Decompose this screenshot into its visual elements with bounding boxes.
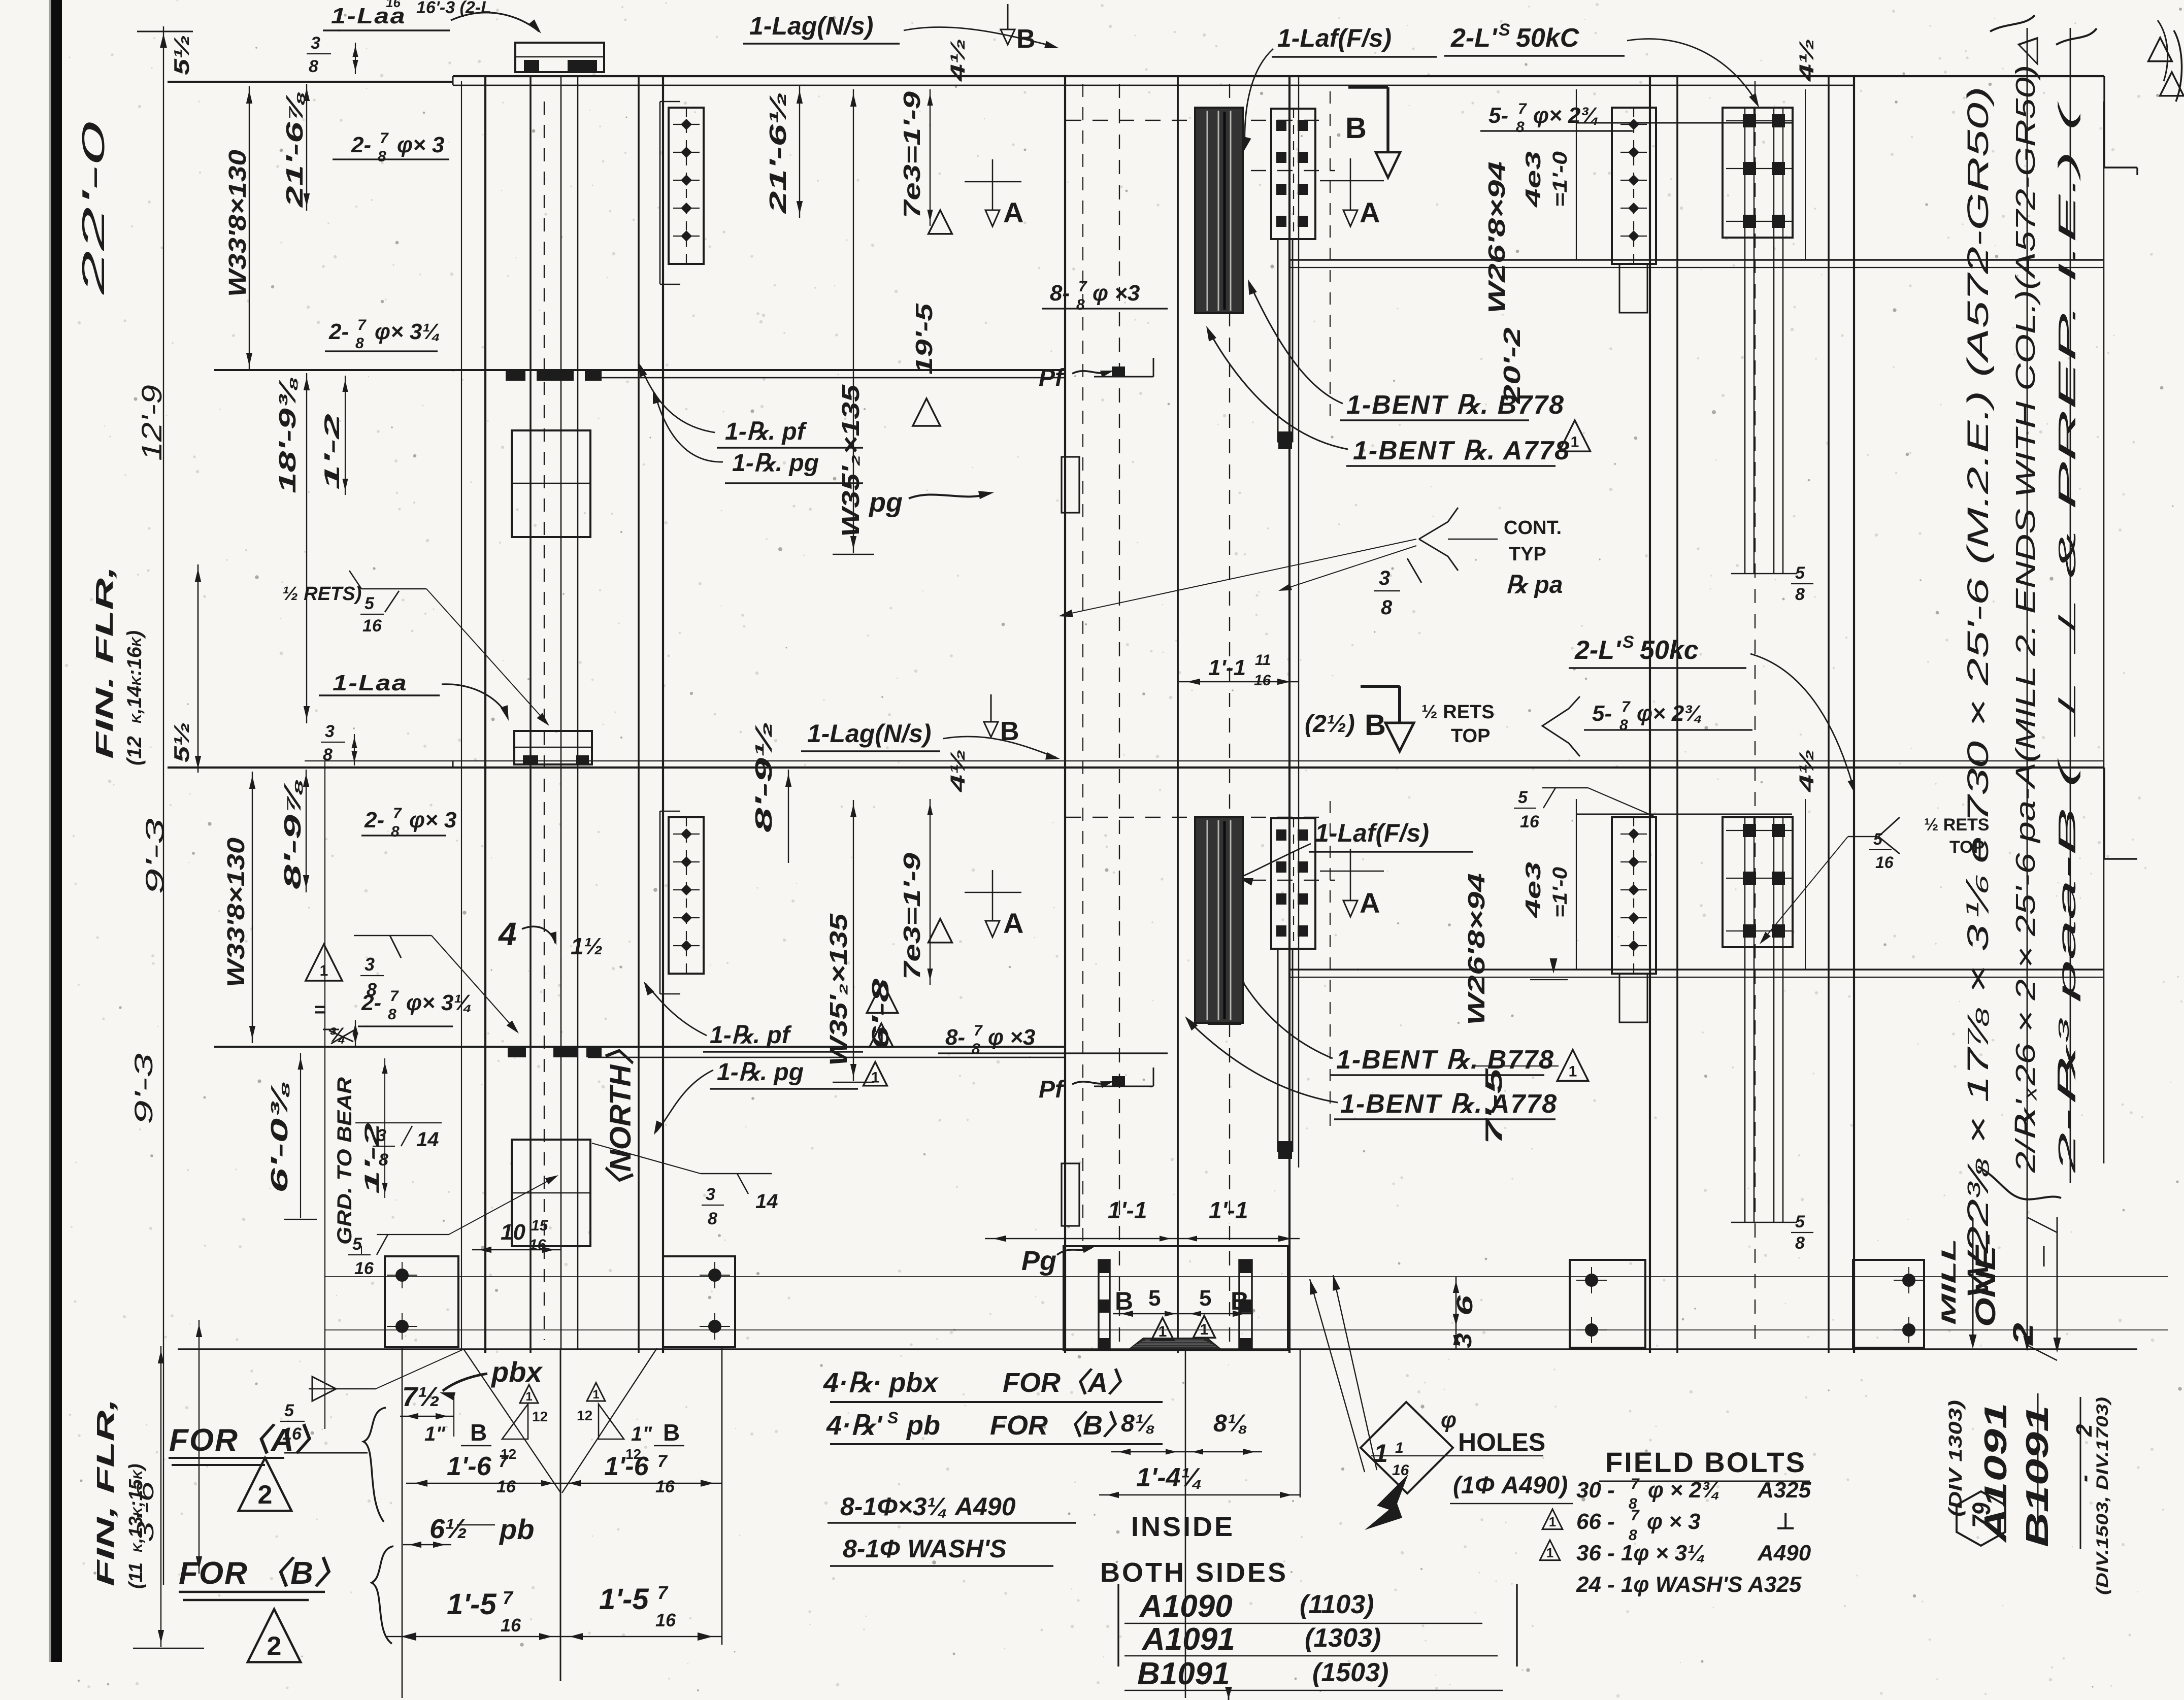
svg-text:BOTH SIDES: BOTH SIDES (1100, 1557, 1288, 1588)
svg-text:7: 7 (503, 1587, 514, 1608)
svg-text:1-℞. pf: 1-℞. pf (710, 1022, 792, 1049)
svg-text:4·℞· pbx: 4·℞· pbx (823, 1368, 939, 1398)
svg-text:pg: pg (868, 487, 903, 518)
svg-text:ONE-: ONE- (1969, 1233, 2001, 1327)
svg-text:TOP: TOP (1451, 725, 1490, 747)
svg-text:7: 7 (1518, 101, 1527, 117)
svg-text:S: S (887, 1409, 899, 1427)
svg-text:A490: A490 (1757, 1541, 1811, 1565)
svg-text:7: 7 (393, 805, 402, 822)
svg-text:φ × 3: φ × 3 (1647, 1509, 1701, 1534)
svg-text:16: 16 (1254, 672, 1271, 689)
svg-text:TYP: TYP (1509, 544, 1546, 565)
svg-text:15: 15 (531, 1217, 549, 1234)
svg-text:16: 16 (354, 1259, 374, 1278)
svg-text:(11: (11 (125, 1562, 147, 1589)
svg-text:(1Φ A490): (1Φ A490) (1453, 1472, 1568, 1499)
svg-text:5½: 5½ (170, 722, 193, 762)
svg-text:3: 3 (1379, 567, 1390, 589)
svg-text:1: 1 (1571, 434, 1579, 451)
svg-text:1'-6: 1'-6 (604, 1452, 649, 1481)
svg-text:W33'8×130: W33'8×130 (224, 150, 251, 297)
svg-text:W26'8×94: W26'8×94 (1463, 873, 1490, 1025)
svg-text:8: 8 (1076, 296, 1085, 313)
svg-text:1-Laa: 1-Laa (331, 4, 406, 28)
svg-text:FIN, FLR,: FIN, FLR, (92, 1398, 119, 1586)
svg-text:19'-5: 19'-5 (911, 303, 937, 375)
svg-text:6½: 6½ (429, 1514, 468, 1544)
svg-text:=: = (314, 998, 325, 1021)
svg-text:8: 8 (323, 745, 333, 764)
svg-text:S: S (1499, 20, 1510, 40)
svg-text:1'-5: 1'-5 (447, 1588, 497, 1621)
svg-text:A: A (1360, 887, 1380, 919)
svg-text:1: 1 (1200, 1321, 1209, 1338)
svg-text:5-: 5- (1488, 103, 1508, 128)
svg-text:8⅛: 8⅛ (1121, 1410, 1155, 1437)
svg-text:4½: 4½ (1796, 38, 1818, 82)
svg-text:5: 5 (1795, 563, 1805, 583)
svg-text:2-: 2- (361, 990, 381, 1015)
svg-text:FOR 〈B〉: FOR 〈B〉 (990, 1410, 1130, 1441)
svg-text:1½: 1½ (571, 933, 603, 959)
right column C3 (1649, 76, 1651, 1353)
svg-text:3: 3 (325, 722, 335, 741)
svg-text:5: 5 (1199, 1286, 1211, 1311)
svg-text:B: B (663, 1419, 680, 1446)
svg-text:7: 7 (357, 317, 367, 334)
svg-text:7e3=1'-9: 7e3=1'-9 (899, 852, 925, 980)
svg-text:1-BENT ℞. A778: 1-BENT ℞. A778 (1353, 436, 1570, 465)
svg-text:79: 79 (1967, 1503, 1996, 1528)
svg-text:3: 3 (1451, 1333, 1476, 1348)
svg-text:2-: 2- (364, 808, 384, 832)
svg-text:(2½): (2½) (1305, 711, 1355, 738)
svg-text:(DIV.1503, DIV.1703): (DIV.1503, DIV.1703) (2093, 1397, 2111, 1595)
svg-text:Pg: Pg (1021, 1246, 1056, 1276)
svg-text:7: 7 (974, 1022, 983, 1039)
svg-text:4½: 4½ (1796, 749, 1818, 793)
svg-text:A: A (1003, 196, 1023, 228)
svg-text:50kc: 50kc (1640, 636, 1699, 665)
svg-text:FIN. FLR,: FIN. FLR, (91, 566, 118, 759)
svg-text:24 - 1φ WASH'S A325: 24 - 1φ WASH'S A325 (1576, 1572, 1802, 1597)
svg-text:8: 8 (972, 1041, 980, 1057)
svg-text:4½: 4½ (947, 749, 969, 793)
svg-text:12: 12 (577, 1408, 592, 1423)
svg-text:φ× 3¼: φ× 3¼ (375, 319, 441, 344)
svg-text:HOLES: HOLES (1458, 1428, 1545, 1456)
svg-text:4·℞': 4·℞' (826, 1410, 883, 1441)
svg-text:1-BENT ℞. A778: 1-BENT ℞. A778 (1340, 1089, 1558, 1119)
svg-text:FOR〈A〉: FOR〈A〉 (1003, 1368, 1135, 1398)
svg-text:1: 1 (525, 1390, 532, 1404)
svg-text:⊥: ⊥ (1776, 1509, 1795, 1534)
bent plate B778/A778 (E2) (1195, 817, 1243, 1023)
svg-text:8: 8 (391, 823, 400, 840)
svg-text:8⅛: 8⅛ (1213, 1410, 1247, 1437)
svg-text:1-Lag(N/s): 1-Lag(N/s) (807, 719, 931, 748)
svg-text:30 -: 30 - (1576, 1478, 1615, 1503)
svg-text:1-Laa: 1-Laa (333, 671, 408, 695)
svg-text:16'-3 (2-L: 16'-3 (2-L (416, 0, 491, 17)
svg-text:16: 16 (362, 616, 382, 636)
svg-text:1: 1 (592, 1388, 599, 1402)
svg-text:7: 7 (1631, 1507, 1640, 1524)
svg-text:(DIV 1303): (DIV 1303) (1945, 1400, 1966, 1517)
svg-text:φ× 3¼: φ× 3¼ (406, 990, 472, 1015)
bent plate B778/A778 (E1) (1195, 108, 1243, 313)
svg-text:2: 2 (2007, 1323, 2039, 1346)
svg-text:7: 7 (1622, 698, 1631, 715)
svg-text:8: 8 (708, 1209, 717, 1228)
svg-text:18'-9⅜: 18'-9⅜ (274, 377, 301, 493)
svg-text:16: 16 (1520, 812, 1540, 831)
svg-text:1: 1 (1159, 1323, 1167, 1340)
elevation-2 beam flange lines (305, 760, 2104, 761)
svg-text:7: 7 (380, 130, 389, 147)
left column C1 (484, 76, 486, 1353)
svg-text:7: 7 (1078, 278, 1087, 295)
svg-text:3: 3 (377, 1126, 386, 1145)
svg-text:A: A (1360, 196, 1380, 228)
svg-text:1'-2: 1'-2 (320, 414, 344, 490)
right margin rotated title block (2027, 28, 2028, 1348)
svg-text:16: 16 (655, 1477, 675, 1496)
svg-text:A: A (1003, 907, 1023, 939)
svg-text:8-1Φ×3¼ A490: 8-1Φ×3¼ A490 (840, 1492, 1016, 1521)
svg-text:〈NORTH〉: 〈NORTH〉 (604, 1035, 637, 1202)
svg-text:A325: A325 (1757, 1478, 1811, 1503)
svg-text:7: 7 (390, 988, 399, 1005)
svg-text:5: 5 (284, 1401, 294, 1420)
svg-text:8-1Φ WASH'S: 8-1Φ WASH'S (843, 1535, 1007, 1563)
svg-text:1-℞. pf: 1-℞. pf (725, 418, 807, 445)
svg-text:W35'₂×135: W35'₂×135 (838, 384, 865, 537)
svg-text:8: 8 (1516, 119, 1525, 136)
svg-text:8: 8 (378, 148, 386, 165)
svg-text:B: B (1115, 1287, 1133, 1315)
svg-text:φ× 2¾: φ× 2¾ (1637, 701, 1703, 726)
svg-text:B: B (470, 1419, 487, 1446)
svg-text:7: 7 (499, 1452, 509, 1471)
svg-text:5: 5 (1148, 1286, 1161, 1311)
svg-text:φ× 2¾: φ× 2¾ (1533, 103, 1599, 128)
svg-text:3'-6: 3'-6 (132, 1481, 158, 1542)
svg-text:8: 8 (355, 335, 364, 352)
svg-text:1: 1 (871, 1069, 880, 1086)
svg-text:2-: 2- (328, 319, 349, 344)
svg-text:φ ×3: φ ×3 (1093, 281, 1140, 306)
svg-text:pb: pb (499, 1513, 534, 1545)
svg-text:8: 8 (1619, 717, 1628, 734)
svg-text:½ RETS: ½ RETS (1924, 815, 1989, 835)
svg-text:4e3: 4e3 (1521, 862, 1545, 919)
svg-text:4e3: 4e3 (1521, 151, 1545, 208)
svg-text:℞ pa: ℞ pa (1506, 572, 1563, 598)
svg-text:36 - 1φ × 3¼: 36 - 1φ × 3¼ (1576, 1541, 1706, 1565)
svg-text:1: 1 (1395, 1440, 1404, 1456)
svg-text:1-℞. pg: 1-℞. pg (732, 450, 819, 477)
svg-text:3: 3 (365, 954, 375, 975)
svg-text:5-: 5- (1592, 701, 1612, 726)
svg-text:CONT.: CONT. (1504, 517, 1562, 539)
svg-text:6: 6 (1452, 1295, 1477, 1316)
svg-text:1-Laf(F/s): 1-Laf(F/s) (1277, 24, 1392, 52)
svg-text:9'-3: 9'-3 (141, 818, 169, 894)
svg-text:7'-5: 7'-5 (1480, 1067, 1507, 1145)
svg-text:1'-1: 1'-1 (1108, 1197, 1147, 1223)
svg-text:4½: 4½ (947, 38, 969, 82)
svg-text:φ× 3: φ× 3 (397, 132, 444, 157)
svg-text:W33'8×130: W33'8×130 (223, 838, 250, 987)
pbx gusset and leaders (464, 1350, 560, 1492)
svg-text:MILL: MILL (1938, 1239, 1960, 1325)
left margin dimension lines (163, 26, 164, 1585)
svg-text:2/℞'ₓ26 × 2 × 25'-6 pa-A(MILL: 2/℞'ₓ26 × 2 × 25'-6 pa-A(MILL 2. ENDS WI… (2010, 36, 2041, 1173)
svg-text:5: 5 (1795, 1212, 1805, 1231)
svg-text:16: 16 (655, 1610, 676, 1630)
svg-text:S: S (1623, 632, 1634, 652)
svg-text:TOP: TOP (1949, 838, 1984, 857)
svg-text:FIELD BOLTS: FIELD BOLTS (1605, 1446, 1806, 1478)
svg-text:W26'8×94: W26'8×94 (1483, 161, 1510, 314)
svg-text:6'-8: 6'-8 (867, 978, 894, 1050)
svg-text:8: 8 (1381, 596, 1393, 619)
svg-text:1'-6: 1'-6 (447, 1452, 492, 1481)
svg-text:11: 11 (1255, 652, 1271, 669)
middle column C2 (1064, 76, 1066, 1353)
svg-text:INSIDE: INSIDE (1131, 1512, 1235, 1542)
svg-text:50kC: 50kC (1516, 23, 1580, 53)
svg-text:3: 3 (706, 1185, 715, 1204)
svg-text:W35'₂×135: W35'₂×135 (825, 913, 852, 1066)
svg-text:pbx: pbx (490, 1356, 543, 1388)
svg-text:½ RETS): ½ RETS) (282, 583, 361, 605)
svg-text:2-L': 2-L' (1574, 636, 1622, 665)
svg-text:12'-9: 12'-9 (136, 385, 168, 461)
svg-text:=1'-0: =1'-0 (1549, 151, 1571, 207)
svg-text:14: 14 (755, 1190, 778, 1213)
svg-text:2: 2 (258, 1480, 273, 1510)
svg-text:66 -: 66 - (1576, 1509, 1615, 1534)
svg-text:pb: pb (906, 1410, 940, 1441)
svg-text:1'-1: 1'-1 (1208, 655, 1246, 680)
svg-text:B: B (1345, 112, 1367, 145)
svg-text:(1103): (1103) (1300, 1590, 1374, 1619)
svg-text:4: 4 (498, 916, 517, 952)
svg-text:7½: 7½ (402, 1382, 440, 1412)
svg-text:A1090: A1090 (1139, 1589, 1233, 1624)
svg-text:7: 7 (657, 1582, 669, 1603)
svg-text:8-: 8- (945, 1025, 965, 1050)
svg-text:1: 1 (1549, 1514, 1556, 1529)
svg-text:1: 1 (320, 962, 328, 979)
svg-text:B1091: B1091 (2020, 1405, 2055, 1547)
svg-text:φ × 2¾: φ × 2¾ (1648, 1478, 1720, 1503)
elevation-1 beam flange lines (168, 81, 453, 83)
svg-text:2-L': 2-L' (1450, 23, 1498, 53)
svg-text:8: 8 (1795, 1234, 1805, 1253)
svg-text:8: 8 (379, 1150, 388, 1170)
svg-text:1": 1" (424, 1423, 446, 1445)
svg-text:2-℞³ paa-B ( ⊥ ⊥ & P: 2-℞³ paa-B ( ⊥ ⊥ & PREP. I.E.) ( (2054, 99, 2081, 1174)
svg-text:1": 1" (631, 1423, 652, 1445)
svg-text:1: 1 (1546, 1545, 1553, 1560)
svg-text:1: 1 (1569, 1063, 1577, 1080)
svg-text:Pf: Pf (1039, 1076, 1065, 1103)
svg-text:21'-6½: 21'-6½ (765, 91, 791, 214)
svg-text:φ: φ (1441, 1408, 1457, 1432)
svg-text:5: 5 (365, 594, 375, 613)
svg-text:1-Lag(N/s): 1-Lag(N/s) (749, 12, 873, 40)
svg-text:7: 7 (1631, 1476, 1640, 1492)
svg-text:6'-0⅜: 6'-0⅜ (266, 1081, 292, 1193)
svg-text:16: 16 (1875, 853, 1894, 872)
svg-text:8'-9⅞: 8'-9⅞ (279, 778, 306, 889)
svg-text:B: B (1365, 709, 1386, 742)
svg-text:16: 16 (497, 1477, 516, 1496)
svg-text:21'-6⅞: 21'-6⅞ (281, 90, 308, 208)
svg-text:2: 2 (267, 1631, 282, 1661)
svg-text:(1503): (1503) (1312, 1658, 1388, 1687)
svg-text:5: 5 (1518, 788, 1528, 807)
svg-text:1'-5: 1'-5 (599, 1583, 649, 1616)
scan border bar (51, 0, 62, 1662)
base plates and anchor bolts (325, 1276, 2168, 1277)
svg-text:1-℞. pg: 1-℞. pg (717, 1059, 804, 1086)
svg-text:A1091: A1091 (1141, 1622, 1235, 1657)
svg-text:10: 10 (501, 1220, 525, 1245)
svg-text:8: 8 (1795, 585, 1805, 604)
svg-text:7: 7 (657, 1452, 668, 1471)
svg-text:3: 3 (311, 34, 320, 53)
svg-text:1-Laf(F/s): 1-Laf(F/s) (1315, 819, 1429, 847)
svg-text:5: 5 (1873, 830, 1883, 848)
svg-text:GRD. TO BEAR: GRD. TO BEAR (334, 1077, 356, 1245)
svg-text:22'-0: 22'-0 (76, 122, 111, 296)
svg-text:1'-4¼: 1'-4¼ (1136, 1463, 1203, 1492)
svg-text:=1'-0: =1'-0 (1549, 867, 1571, 918)
svg-text:(12: (12 (123, 736, 146, 765)
svg-text:1'-1: 1'-1 (1209, 1197, 1248, 1223)
svg-text:1-BENT ℞. B778: 1-BENT ℞. B778 (1336, 1045, 1554, 1075)
svg-text:φ× 3: φ× 3 (409, 808, 456, 832)
svg-text:8-: 8- (1050, 281, 1070, 306)
svg-text:B1091: B1091 (1137, 1656, 1230, 1691)
svg-text:W22⅜ × 17⅞ × 3⅙ e 730 × 25: W22⅜ × 17⅞ × 3⅙ e 730 × 25'-6 (M.2.E.) (… (1962, 86, 1995, 1299)
svg-text:½ RETS: ½ RETS (1421, 702, 1495, 723)
svg-text:8'-9½: 8'-9½ (750, 721, 777, 832)
svg-text:7e3=1'-9: 7e3=1'-9 (899, 91, 925, 218)
svg-text:2-: 2- (351, 132, 371, 157)
svg-text:φ ×3: φ ×3 (988, 1025, 1035, 1050)
svg-text:16: 16 (501, 1615, 521, 1636)
svg-text:B: B (1000, 717, 1019, 746)
svg-text:1-BENT ℞. B778: 1-BENT ℞. B778 (1346, 390, 1565, 420)
svg-text:14: 14 (416, 1128, 439, 1151)
svg-text:12: 12 (532, 1409, 548, 1424)
svg-text:9'-3: 9'-3 (129, 1053, 158, 1124)
svg-text:5: 5 (352, 1235, 362, 1254)
svg-text:FOR 〈B〉: FOR 〈B〉 (179, 1556, 347, 1591)
svg-text:8: 8 (388, 1006, 396, 1023)
svg-text:Pf: Pf (1039, 364, 1065, 391)
svg-text:5½: 5½ (170, 35, 193, 75)
svg-text:8: 8 (309, 57, 318, 76)
svg-text:(1303): (1303) (1305, 1623, 1381, 1653)
svg-text:B: B (1016, 24, 1036, 54)
